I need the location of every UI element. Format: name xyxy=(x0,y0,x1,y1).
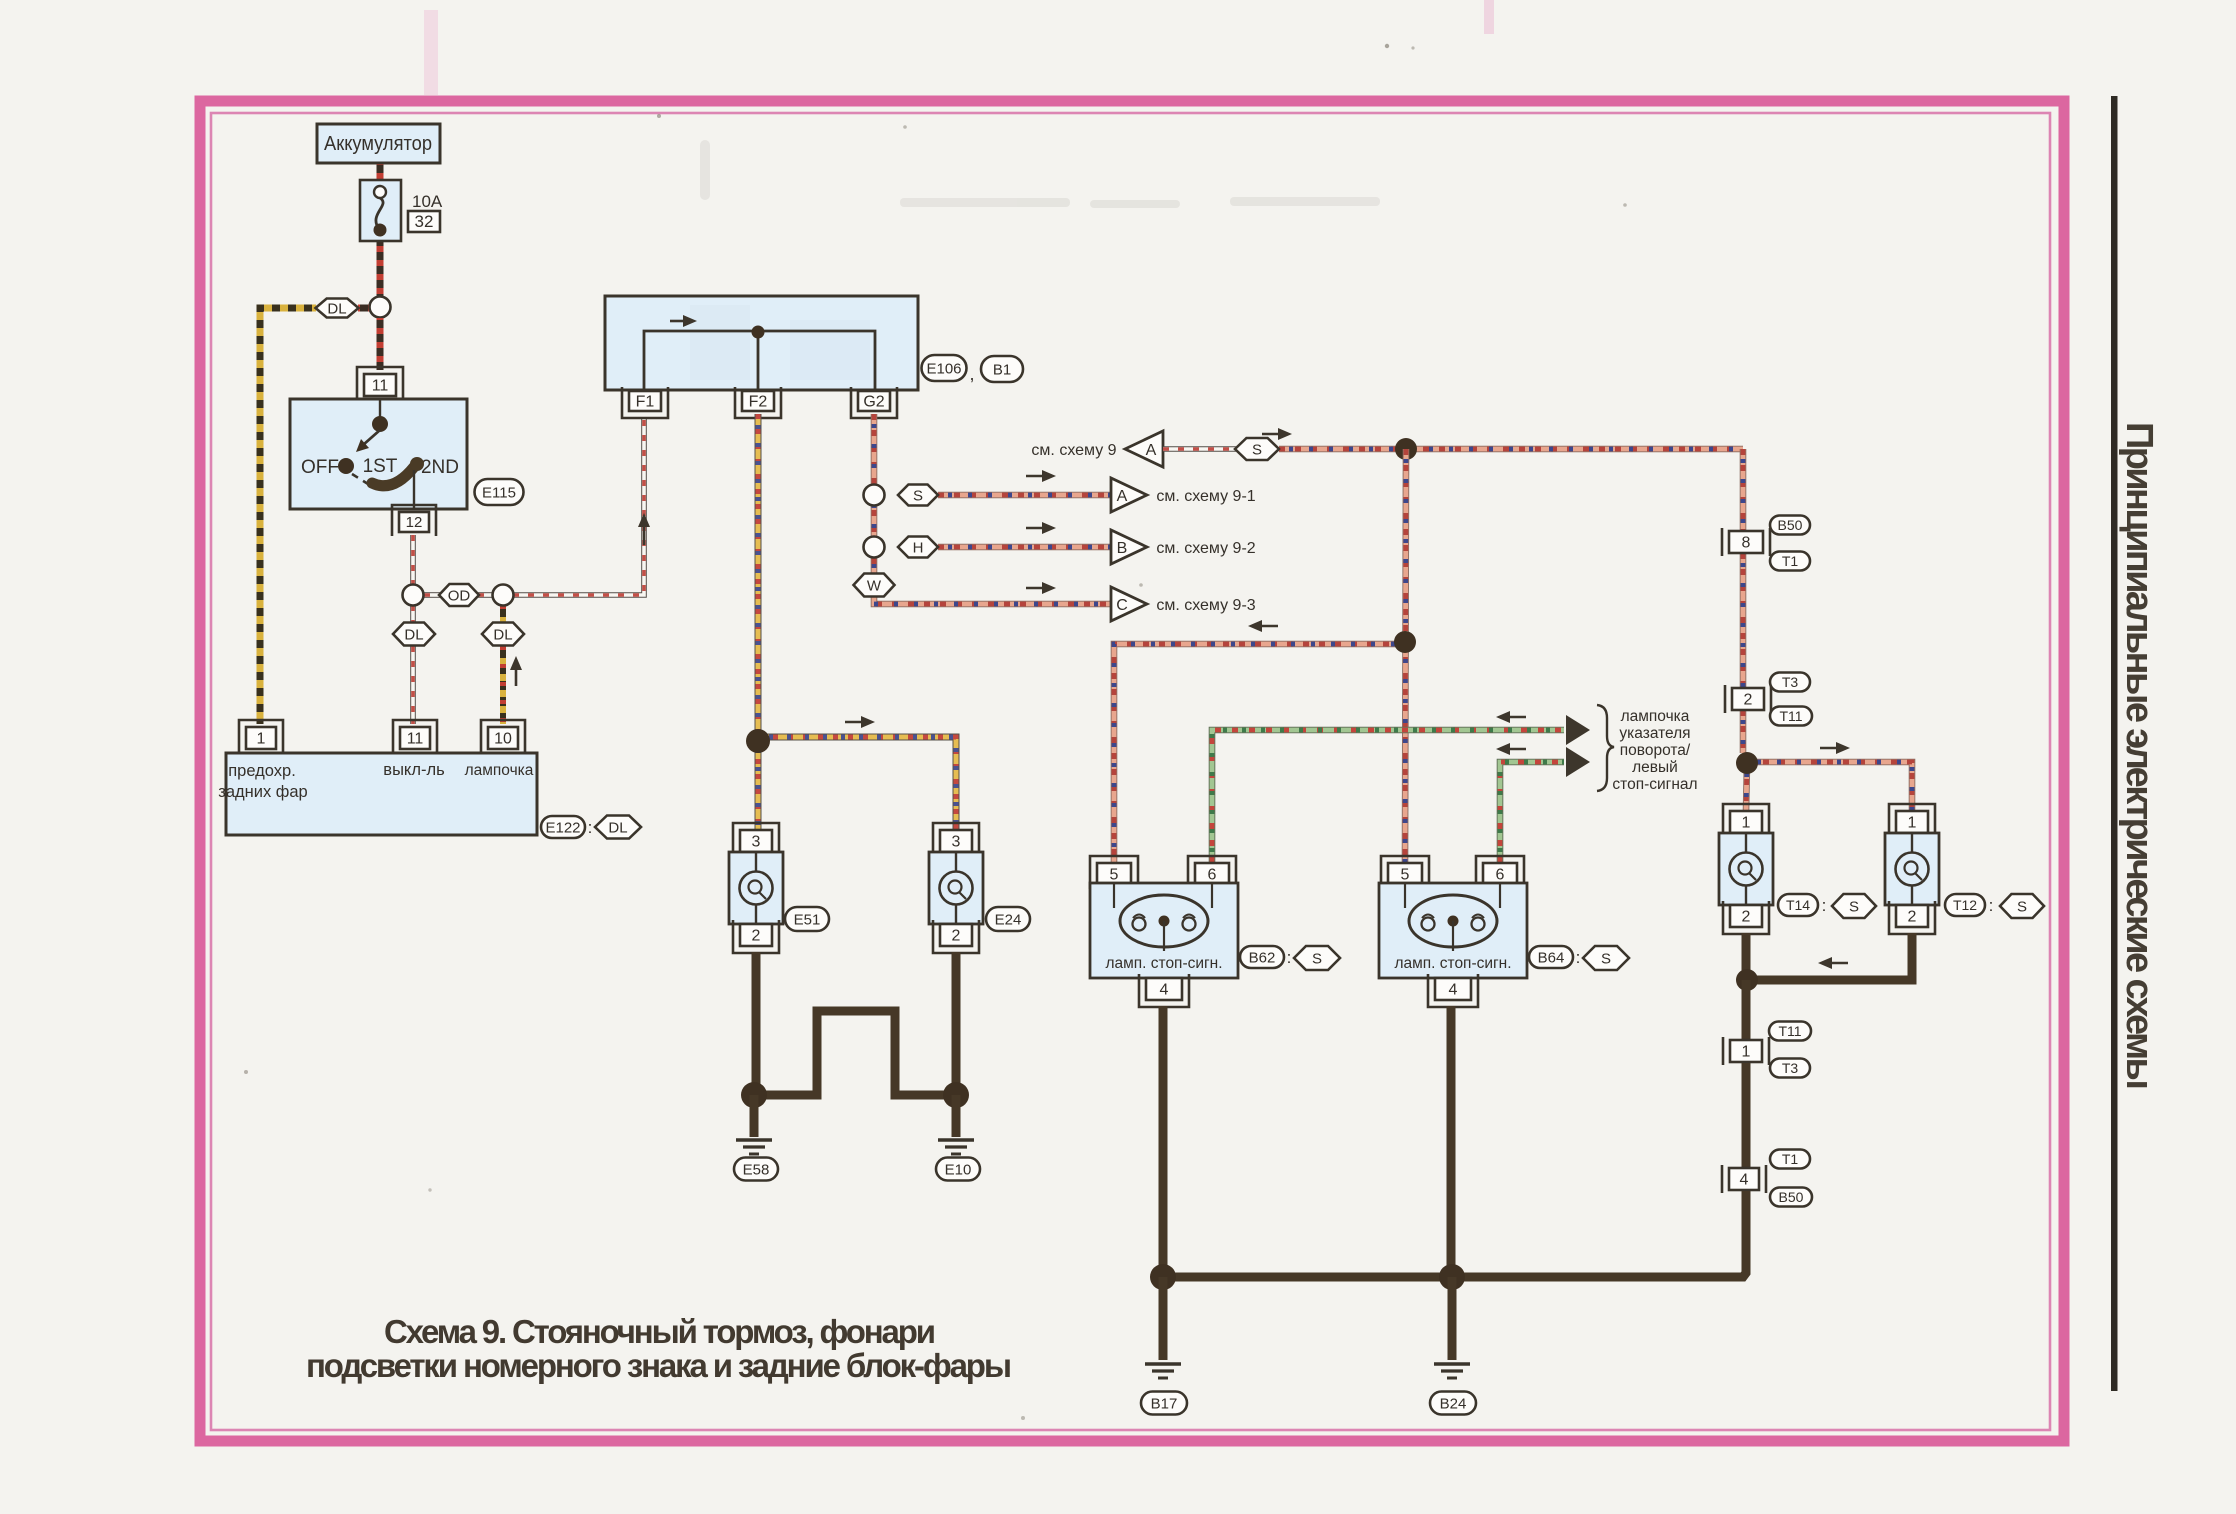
svg-text:1: 1 xyxy=(1742,1043,1751,1060)
svg-text:ламп. стоп-сигн.: ламп. стоп-сигн. xyxy=(1394,955,1511,972)
svg-text:S: S xyxy=(1601,950,1611,967)
svg-text::: : xyxy=(1989,896,1994,915)
svg-text:2: 2 xyxy=(1744,691,1753,708)
svg-text:1: 1 xyxy=(1742,814,1751,831)
svg-text:S: S xyxy=(1252,441,1262,458)
svg-text:B50: B50 xyxy=(1778,517,1803,533)
svg-text:G2: G2 xyxy=(863,393,884,410)
svg-text:ламп. стоп-сигн.: ламп. стоп-сигн. xyxy=(1105,955,1222,972)
svg-text:DL: DL xyxy=(608,819,627,836)
svg-text:S: S xyxy=(2017,898,2027,915)
svg-text:12: 12 xyxy=(406,514,423,531)
svg-text:DL: DL xyxy=(327,300,346,317)
svg-text:лампочка: лампочка xyxy=(1621,708,1690,725)
svg-text:6: 6 xyxy=(1496,866,1505,883)
svg-text:1: 1 xyxy=(1908,814,1917,831)
svg-text::: : xyxy=(1576,948,1581,967)
svg-text:DL: DL xyxy=(404,626,423,643)
svg-text:11: 11 xyxy=(407,730,424,747)
svg-text:задних фар: задних фар xyxy=(218,783,307,801)
svg-text:2: 2 xyxy=(952,927,961,944)
svg-text:T1: T1 xyxy=(1782,553,1799,569)
svg-text:,: , xyxy=(969,364,974,384)
svg-text:1: 1 xyxy=(257,730,266,747)
svg-text:выкл-ль: выкл-ль xyxy=(383,761,444,779)
svg-text:B64: B64 xyxy=(1538,949,1565,966)
svg-text:указателя: указателя xyxy=(1619,725,1690,742)
svg-text:H: H xyxy=(913,539,924,556)
svg-text:см. схему 9-2: см. схему 9-2 xyxy=(1156,540,1255,557)
svg-text:C: C xyxy=(1116,597,1128,614)
svg-text:W: W xyxy=(867,577,882,594)
svg-text:T11: T11 xyxy=(1778,1023,1801,1039)
svg-text:S: S xyxy=(913,487,923,504)
svg-text:B: B xyxy=(1117,540,1128,557)
svg-text:T14: T14 xyxy=(1786,897,1810,913)
svg-text:B50: B50 xyxy=(1779,1189,1804,1205)
svg-text:1ST: 1ST xyxy=(363,456,398,477)
svg-text:OFF: OFF xyxy=(301,457,339,478)
svg-text:E58: E58 xyxy=(743,1161,770,1178)
svg-text:32: 32 xyxy=(415,212,434,231)
svg-text:11: 11 xyxy=(372,377,389,394)
svg-text:T1: T1 xyxy=(1782,1151,1799,1167)
svg-text:T3: T3 xyxy=(1782,674,1799,690)
svg-text:Схема 9. Стояночный тормоз, фо: Схема 9. Стояночный тормоз, фонари xyxy=(384,1313,936,1350)
svg-text:A: A xyxy=(1146,442,1157,459)
svg-text:4: 4 xyxy=(1449,981,1458,998)
svg-text:E24: E24 xyxy=(995,911,1022,928)
svg-text:S: S xyxy=(1312,950,1322,967)
svg-text:6: 6 xyxy=(1208,866,1217,883)
svg-text:DL: DL xyxy=(493,626,512,643)
svg-text:10: 10 xyxy=(494,730,512,747)
svg-text:B62: B62 xyxy=(1249,949,1276,966)
svg-text:3: 3 xyxy=(952,833,961,850)
svg-text:Принципиальные электрические с: Принципиальные электрические схемы xyxy=(2118,422,2160,1090)
svg-text:левый: левый xyxy=(1632,759,1678,776)
svg-text:2: 2 xyxy=(1908,908,1917,925)
svg-text:2: 2 xyxy=(1742,908,1751,925)
svg-text:2ND: 2ND xyxy=(421,457,459,478)
svg-text:T12: T12 xyxy=(1953,897,1977,913)
svg-text:см. схему 9-1: см. схему 9-1 xyxy=(1156,488,1255,505)
svg-text:5: 5 xyxy=(1401,866,1410,883)
svg-text:стоп-сигнал: стоп-сигнал xyxy=(1612,776,1697,793)
svg-text::: : xyxy=(1822,896,1827,915)
svg-text:T3: T3 xyxy=(1782,1060,1799,1076)
svg-text:B1: B1 xyxy=(993,361,1011,378)
svg-text:E115: E115 xyxy=(482,484,516,501)
svg-text:2: 2 xyxy=(752,927,761,944)
svg-text::: : xyxy=(588,818,593,837)
svg-text:3: 3 xyxy=(752,833,761,850)
svg-text:OD: OD xyxy=(448,587,471,604)
svg-text:B17: B17 xyxy=(1151,1395,1178,1412)
svg-text:F1: F1 xyxy=(636,393,655,410)
svg-text:поворота/: поворота/ xyxy=(1620,742,1691,759)
svg-text::: : xyxy=(1287,948,1292,967)
svg-text:10A: 10A xyxy=(412,192,443,211)
svg-text:A: A xyxy=(1117,488,1128,505)
svg-text:E51: E51 xyxy=(794,911,821,928)
svg-text:E106: E106 xyxy=(926,360,961,377)
svg-text:E122: E122 xyxy=(545,819,580,836)
svg-text:4: 4 xyxy=(1740,1171,1749,1188)
svg-text:B24: B24 xyxy=(1440,1395,1467,1412)
svg-text:F2: F2 xyxy=(749,393,768,410)
svg-text:4: 4 xyxy=(1160,981,1169,998)
svg-text:8: 8 xyxy=(1742,534,1751,551)
svg-text:подсветки номерного знака и за: подсветки номерного знака и задние блок-… xyxy=(306,1347,1012,1384)
svg-text:T11: T11 xyxy=(1779,708,1802,724)
svg-text:предохр.: предохр. xyxy=(228,762,296,780)
svg-text:S: S xyxy=(1849,898,1859,915)
svg-text:см. схему 9: см. схему 9 xyxy=(1031,442,1116,459)
svg-text:см. схему 9-3: см. схему 9-3 xyxy=(1156,597,1255,614)
svg-text:лампочка: лампочка xyxy=(465,762,534,779)
svg-text:E10: E10 xyxy=(945,1161,972,1178)
svg-text:Аккумулятор: Аккумулятор xyxy=(324,133,432,155)
svg-text:5: 5 xyxy=(1110,866,1119,883)
